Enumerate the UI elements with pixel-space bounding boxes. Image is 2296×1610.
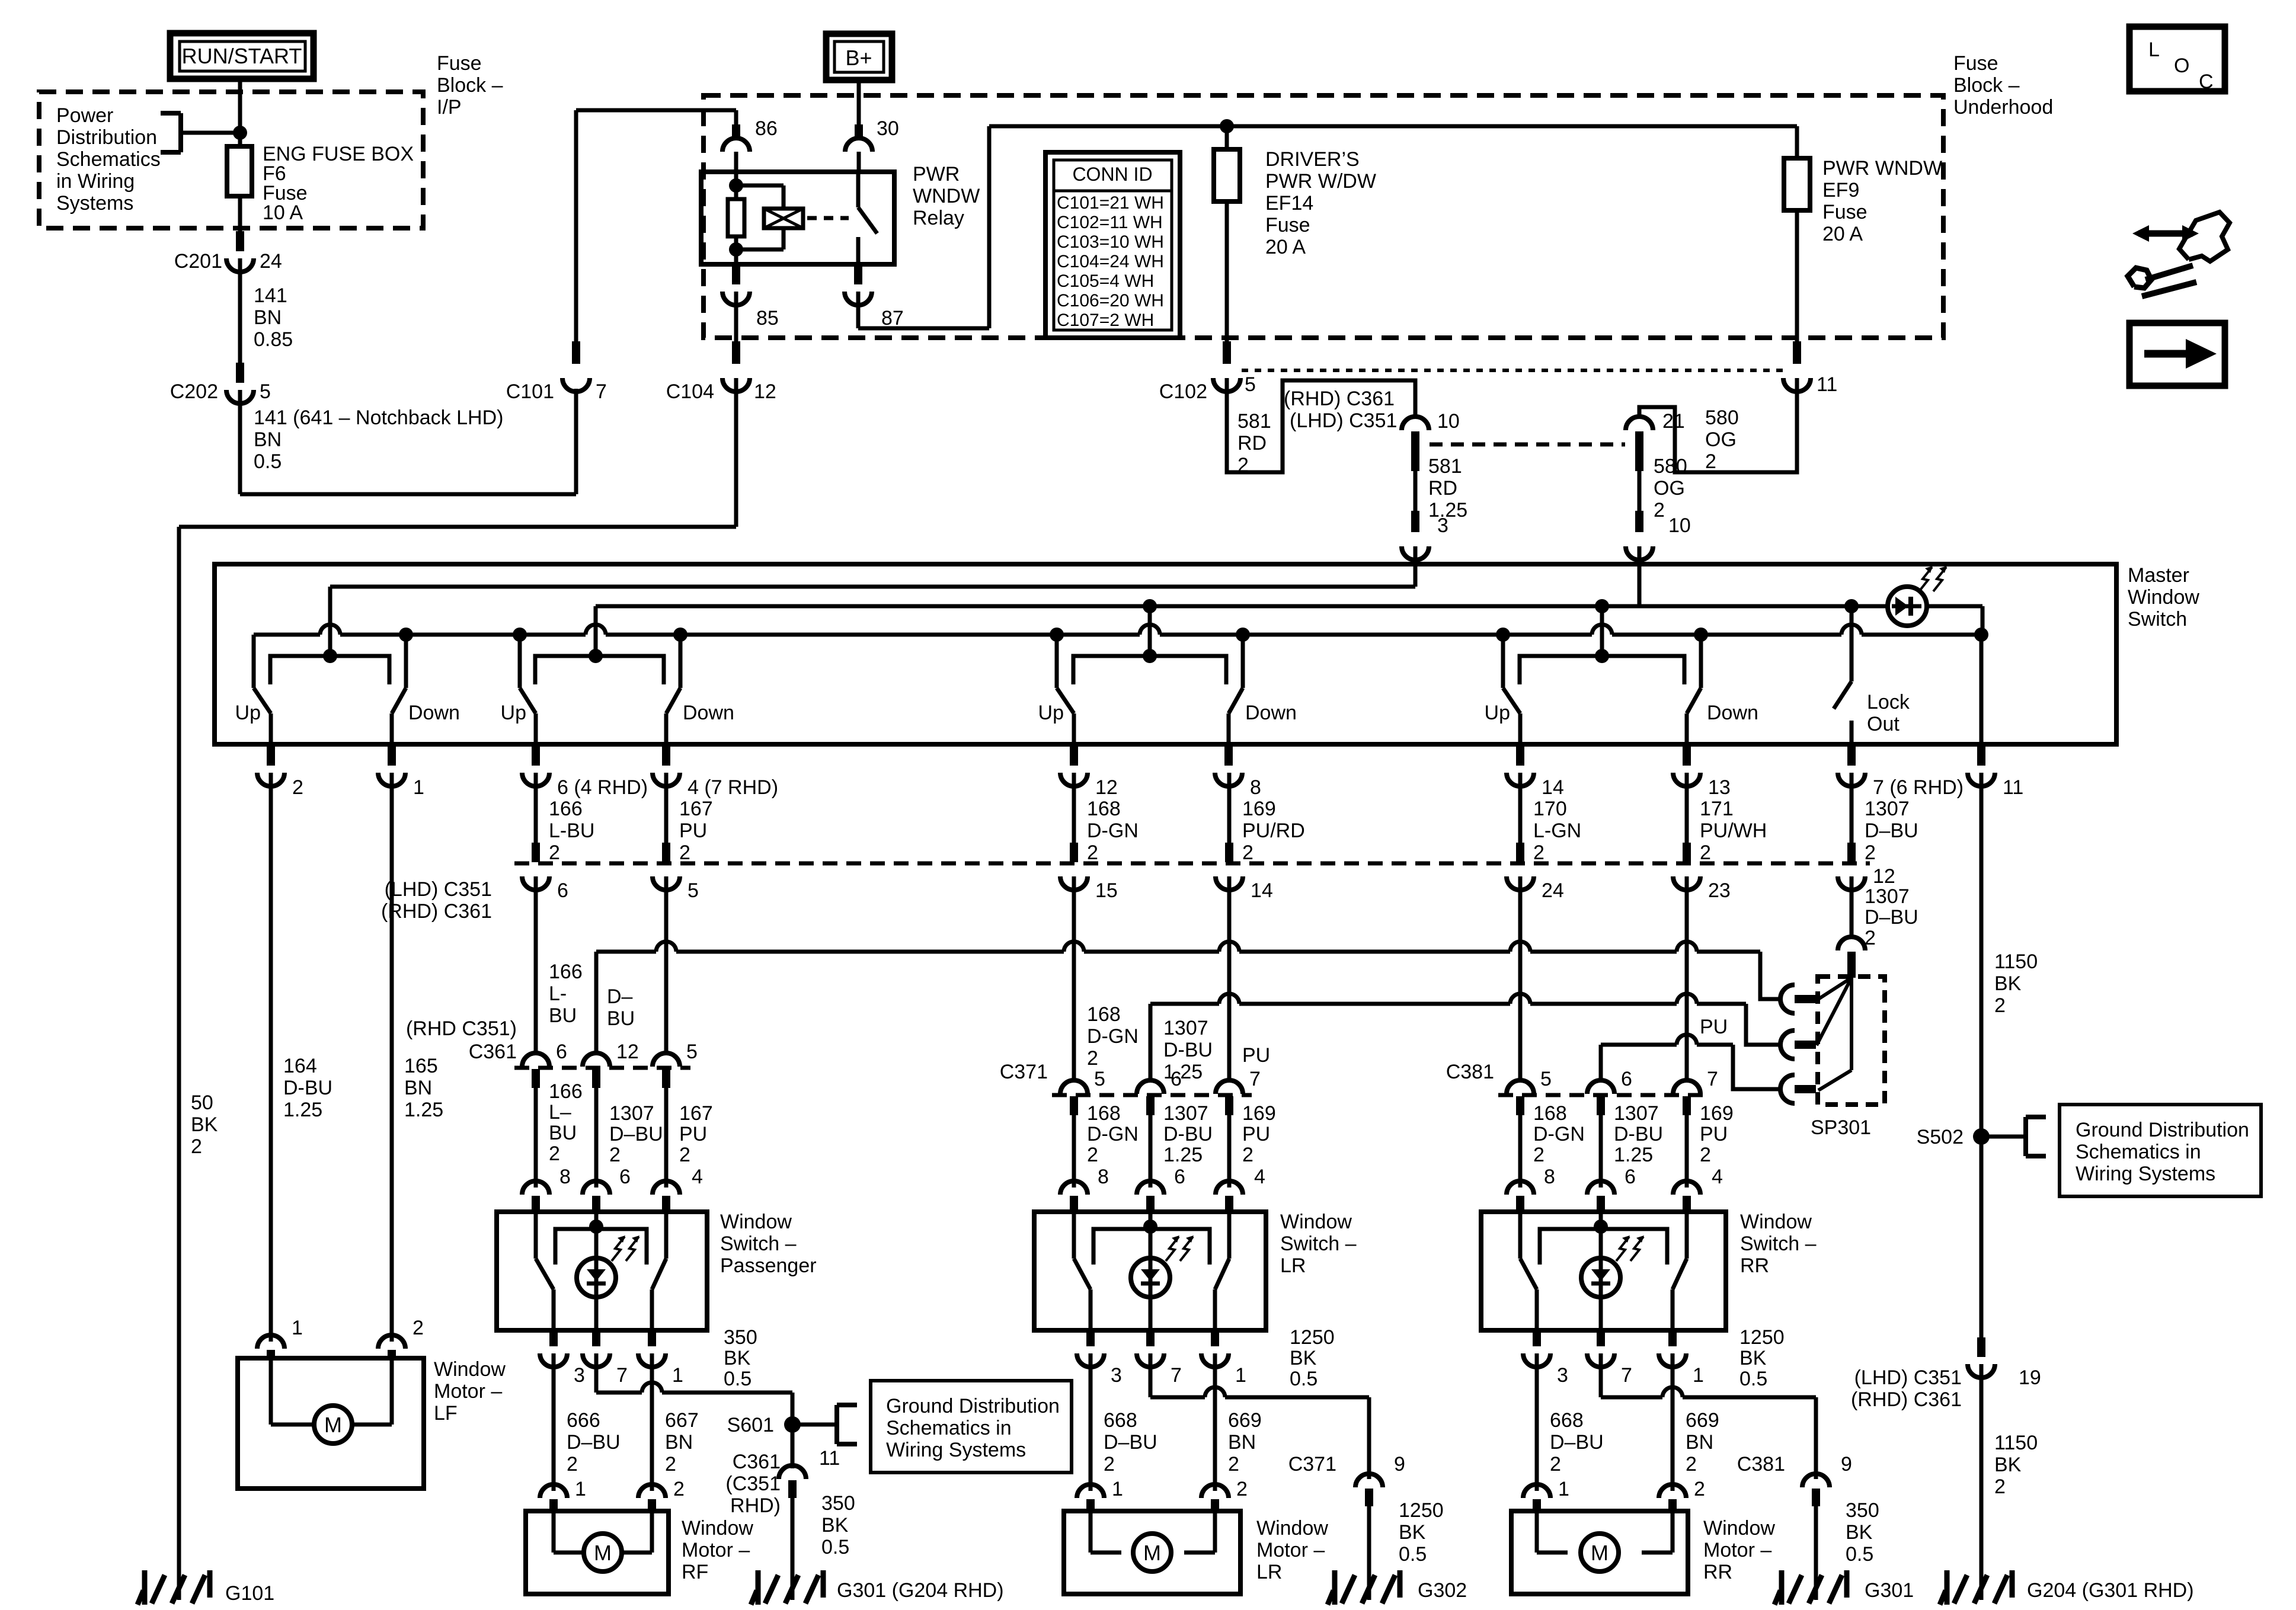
svg-text:(LHD) C351: (LHD) C351 <box>1290 409 1397 432</box>
svg-text:3: 3 <box>1557 1364 1568 1387</box>
svg-text:2: 2 <box>549 841 560 864</box>
svg-text:2: 2 <box>292 776 303 799</box>
svg-text:D-GN: D-GN <box>1087 1025 1139 1048</box>
switch LED <box>577 1258 616 1297</box>
ground distribution note box <box>871 1381 1072 1473</box>
svg-text:Block –: Block – <box>1953 74 2020 97</box>
svg-text:C371: C371 <box>1000 1061 1048 1083</box>
svg-text:20 A: 20 A <box>1822 223 1863 245</box>
wire 168 D-GN 2 to LR switch <box>1072 1119 1076 1188</box>
wire throw bar to 581 bus <box>328 587 332 656</box>
note bracket to wire <box>178 113 183 152</box>
wire 1307 D-BU 2 to switch <box>594 1092 599 1188</box>
svg-text:C104: C104 <box>666 380 714 403</box>
wire 1307 link corner to C381-6 <box>1599 1045 1603 1067</box>
splice S502 <box>1973 1128 1990 1145</box>
wire 168 D-GN 2 to RR switch <box>1518 1119 1523 1188</box>
switch bank up blade <box>1057 688 1074 713</box>
svg-text:1307: 1307 <box>1614 1102 1659 1125</box>
svg-text:C381: C381 <box>1446 1061 1494 1083</box>
svg-text:BU: BU <box>549 1122 577 1144</box>
window switch RR box <box>1481 1212 1726 1330</box>
svg-text:BN: BN <box>404 1077 432 1099</box>
svg-text:581: 581 <box>1428 455 1462 478</box>
icon vehicle-service glyph <box>2179 212 2230 261</box>
connector C351 pin 10 <box>1402 417 1429 430</box>
ground G101 <box>177 1568 181 1600</box>
svg-text:CONN ID: CONN ID <box>1072 164 1152 185</box>
splice S601 <box>784 1416 801 1433</box>
svg-text:170: 170 <box>1533 798 1567 820</box>
svg-text:Block –: Block – <box>437 74 503 97</box>
switch bank throw bar <box>535 656 664 684</box>
svg-text:BK: BK <box>1994 972 2022 995</box>
switch bank throw bar <box>1520 656 1684 684</box>
svg-text:2: 2 <box>1228 1453 1239 1475</box>
row1 connector pin 23 <box>1683 843 1691 862</box>
wire 1307 D-BU jumper <box>594 952 599 1039</box>
wire 141 BN 0.85 <box>238 258 242 363</box>
svg-text:1307: 1307 <box>1865 798 1910 820</box>
svg-text:M: M <box>1591 1541 1609 1565</box>
svg-text:4: 4 <box>1254 1166 1265 1188</box>
connector EF9 output pin 11 <box>1793 341 1801 364</box>
switch bank down blade <box>666 688 680 713</box>
window switch top pin <box>1673 1181 1700 1195</box>
svg-text:D–BU: D–BU <box>1865 820 1918 842</box>
row2 connector pin 7 <box>1227 1065 1232 1080</box>
master switch pin 1 <box>388 744 396 766</box>
svg-text:BK: BK <box>821 1514 849 1537</box>
switch bank up contact <box>513 628 527 642</box>
svg-text:Switch: Switch <box>2128 608 2187 630</box>
row1 connector pin 24 <box>1516 843 1524 862</box>
svg-text:12: 12 <box>754 380 776 403</box>
node junction on RUN/START feed <box>233 126 247 140</box>
wire 1307 D-BU 2 from master pin 7 <box>1850 773 1854 844</box>
connector into SP301 <box>1838 937 1865 950</box>
svg-text:in Wiring: in Wiring <box>56 170 135 193</box>
svg-text:PU/WH: PU/WH <box>1700 820 1767 842</box>
wire 669 BN 2 <box>1213 1353 1217 1491</box>
svg-text:2: 2 <box>1994 994 2006 1017</box>
svg-text:1: 1 <box>1693 1364 1704 1387</box>
svg-text:C202: C202 <box>170 380 218 403</box>
relay pin 86 <box>732 124 740 137</box>
svg-text:C101=21 WH: C101=21 WH <box>1057 193 1164 213</box>
motor LR <box>1089 1511 1093 1553</box>
LED flash arrows <box>1616 1237 1629 1261</box>
svg-text:BK: BK <box>724 1347 751 1369</box>
svg-text:C201: C201 <box>174 250 222 273</box>
svg-text:Switch –: Switch – <box>720 1233 797 1255</box>
svg-text:8: 8 <box>1098 1166 1109 1188</box>
wire 580 OG 2 to connector 10 <box>1638 471 1642 521</box>
svg-text:1: 1 <box>1112 1478 1123 1500</box>
svg-text:169: 169 <box>1242 1102 1276 1125</box>
svg-text:D–BU: D–BU <box>1550 1431 1604 1454</box>
svg-text:WNDW: WNDW <box>913 185 980 207</box>
switch bottom pins 3 7 1 <box>1086 1330 1095 1346</box>
motor LF <box>269 1358 273 1425</box>
svg-text:B+: B+ <box>845 46 872 70</box>
node feed bus junction <box>1220 119 1234 133</box>
svg-text:Window: Window <box>720 1211 792 1233</box>
relay PWR WNDW box <box>701 172 894 264</box>
svg-text:SP301: SP301 <box>1811 1116 1871 1139</box>
svg-text:I/P: I/P <box>437 96 462 119</box>
svg-text:D-GN: D-GN <box>1533 1123 1585 1145</box>
svg-text:LR: LR <box>1280 1254 1306 1277</box>
svg-text:BN: BN <box>254 428 282 451</box>
switch LED <box>1131 1258 1170 1297</box>
svg-text:(RHD) C361: (RHD) C361 <box>381 900 492 923</box>
svg-text:(C351: (C351 <box>725 1473 781 1495</box>
svg-text:EF9: EF9 <box>1822 179 1859 201</box>
svg-text:C361: C361 <box>469 1041 517 1063</box>
svg-text:2: 2 <box>1104 1453 1115 1475</box>
svg-text:2: 2 <box>1533 1144 1544 1166</box>
relay actuation dashed link <box>807 216 849 220</box>
relay coil resistor <box>734 172 738 199</box>
svg-text:1150: 1150 <box>1994 1432 2038 1454</box>
relay armature switch <box>856 172 861 207</box>
svg-text:D-GN: D-GN <box>1087 1123 1139 1145</box>
connector 3 into master switch <box>1411 511 1419 532</box>
connector C101 pin 7 <box>572 341 580 364</box>
row1 connector pin 15 <box>1070 843 1078 862</box>
svg-text:D–: D– <box>607 985 633 1008</box>
svg-text:580: 580 <box>1654 455 1687 478</box>
wire throw bar to 580 bus <box>594 606 598 656</box>
svg-text:Power: Power <box>56 104 113 127</box>
svg-text:0.5: 0.5 <box>1739 1368 1767 1390</box>
lockout switch <box>1844 599 1859 613</box>
power label RUN/START box <box>170 33 314 79</box>
up blade <box>534 1212 538 1259</box>
switch bank down blade <box>1229 688 1243 713</box>
svg-text:M: M <box>1143 1541 1161 1565</box>
svg-text:2: 2 <box>1700 841 1711 864</box>
svg-text:168: 168 <box>1087 798 1121 820</box>
svg-text:24: 24 <box>260 250 282 273</box>
wire 667 BN 2 <box>650 1353 654 1491</box>
svg-text:87: 87 <box>881 307 904 329</box>
connector C351 pin 19 <box>1977 1337 1985 1357</box>
wire 1250 BK 0.5 RR LED ground <box>1599 1353 1603 1397</box>
switch bottom pins 3 7 1 <box>1533 1330 1541 1346</box>
svg-text:2: 2 <box>1242 1144 1253 1166</box>
svg-text:PU: PU <box>679 1123 707 1145</box>
svg-text:Up: Up <box>1485 702 1510 724</box>
master switch pin 8 <box>1224 744 1233 766</box>
wire 164 D-BU 1.25 <box>269 773 273 1342</box>
svg-text:4 (7 RHD): 4 (7 RHD) <box>687 776 778 799</box>
row2 connector pin 5 <box>1072 1065 1076 1080</box>
svg-text:166: 166 <box>549 798 583 820</box>
svg-text:2: 2 <box>1236 1478 1248 1500</box>
svg-text:3: 3 <box>1437 514 1448 537</box>
svg-text:164: 164 <box>283 1055 317 1077</box>
svg-text:Window: Window <box>1703 1517 1775 1539</box>
row2 connector pin 6 <box>1599 1065 1603 1080</box>
svg-text:(LHD) C351: (LHD) C351 <box>1854 1366 1962 1389</box>
switch bank up blade <box>254 688 271 713</box>
svg-text:Fuse: Fuse <box>437 52 482 75</box>
svg-text:Switch –: Switch – <box>1740 1233 1817 1255</box>
connector row C371 dashed <box>1052 1093 1252 1097</box>
relay pin 30 <box>855 124 863 137</box>
svg-text:2: 2 <box>1533 841 1544 864</box>
svg-text:2: 2 <box>1087 841 1098 864</box>
window motor LF box <box>238 1358 424 1489</box>
wire 669 BN 2 RR <box>1671 1353 1675 1491</box>
svg-text:4: 4 <box>692 1166 703 1188</box>
svg-text:14: 14 <box>1251 879 1273 902</box>
svg-text:4: 4 <box>1712 1166 1723 1188</box>
window switch Passenger box <box>497 1212 707 1330</box>
switch internals <box>1143 1219 1157 1234</box>
svg-text:8: 8 <box>1250 776 1261 799</box>
svg-text:12: 12 <box>616 1041 639 1063</box>
svg-text:C103=10 WH: C103=10 WH <box>1057 232 1164 252</box>
svg-text:30: 30 <box>877 117 899 140</box>
svg-text:2: 2 <box>1700 1144 1711 1166</box>
row2 connector pin 6 <box>1149 1065 1153 1080</box>
window switch top pin <box>1137 1181 1164 1195</box>
bus common rail inside master switch <box>254 633 320 637</box>
connector C361 pin 21 <box>1626 417 1653 430</box>
down blade <box>664 1212 669 1259</box>
connector row C361 passenger dashed <box>514 1066 690 1070</box>
svg-text:(LHD) C351: (LHD) C351 <box>385 878 492 901</box>
svg-text:S601: S601 <box>727 1414 774 1436</box>
wire 1250 BK 0.5 LED ground <box>1149 1353 1153 1397</box>
svg-text:PWR: PWR <box>913 163 960 185</box>
svg-text:12: 12 <box>1095 776 1118 799</box>
svg-text:0.5: 0.5 <box>1399 1543 1427 1566</box>
svg-text:Wiring Systems: Wiring Systems <box>2076 1163 2215 1185</box>
motor LF pin 1 <box>257 1335 284 1349</box>
svg-text:L: L <box>2148 39 2160 61</box>
wire RUN/START to fuse F6 <box>238 79 242 146</box>
svg-text:13: 13 <box>1708 776 1731 799</box>
svg-text:D-BU: D-BU <box>283 1077 332 1099</box>
svg-text:350: 350 <box>821 1492 855 1515</box>
svg-text:6: 6 <box>1171 1068 1182 1090</box>
window switch top pin <box>1060 1181 1088 1195</box>
svg-text:12: 12 <box>1873 865 1895 888</box>
master switch pin 12 <box>1070 744 1078 766</box>
svg-text:Up: Up <box>1038 702 1064 724</box>
svg-text:2: 2 <box>679 1144 690 1166</box>
wire 581 RD 2 meander C102 to C351-10 <box>1227 378 1415 472</box>
wire throw bar to 580 bus <box>1148 606 1152 656</box>
switch bank down contact <box>399 628 413 642</box>
master switch pin 13 <box>1683 744 1691 766</box>
icon LOC box <box>2129 27 2225 91</box>
wire 350 BK 0.5 to G301 <box>1814 1506 1818 1571</box>
svg-text:7: 7 <box>1621 1364 1632 1387</box>
window switch top pin <box>1507 1181 1534 1195</box>
svg-text:7 (6 RHD): 7 (6 RHD) <box>1873 776 1964 799</box>
LED flash arrows <box>1166 1237 1179 1261</box>
ground G204 (G301 RHD) <box>1980 1568 1984 1600</box>
svg-text:RHD): RHD) <box>730 1494 781 1517</box>
svg-text:165: 165 <box>404 1055 438 1077</box>
window motor RF box <box>526 1511 669 1594</box>
wire 1307 link L1 to SP301 top <box>596 950 656 954</box>
svg-text:10: 10 <box>1668 514 1691 537</box>
svg-text:C106=20 WH: C106=20 WH <box>1057 291 1164 311</box>
wire relay 85 to C104-12 <box>734 292 738 341</box>
svg-text:L–: L– <box>549 1101 571 1124</box>
svg-text:14: 14 <box>1542 776 1564 799</box>
svg-text:Window: Window <box>2128 586 2199 609</box>
svg-text:669: 669 <box>1686 1409 1719 1432</box>
svg-text:C361: C361 <box>733 1451 781 1473</box>
svg-text:Down: Down <box>1707 702 1758 724</box>
svg-text:0.5: 0.5 <box>254 450 282 473</box>
svg-text:0.5: 0.5 <box>1846 1543 1873 1566</box>
svg-text:166: 166 <box>549 1080 583 1103</box>
svg-text:C371: C371 <box>1288 1453 1336 1475</box>
svg-text:D–BU: D–BU <box>567 1431 621 1454</box>
svg-text:M: M <box>324 1413 342 1437</box>
fuse EF9 PWR WNDW 20A <box>1795 126 1799 158</box>
svg-text:1307: 1307 <box>1163 1017 1208 1039</box>
row2 connector pin 12 <box>594 1038 599 1053</box>
svg-text:Down: Down <box>408 702 460 724</box>
svg-text:0.5: 0.5 <box>1290 1368 1318 1390</box>
master switch pin 14 <box>1516 744 1524 766</box>
wire 1307 D-BU 2 to SP301 <box>1850 876 1854 936</box>
svg-text:1.25: 1.25 <box>1163 1061 1203 1083</box>
svg-text:LF: LF <box>434 1402 458 1425</box>
wire 1307 link L2 to SP301 middle <box>1150 1002 1219 1006</box>
svg-text:169: 169 <box>1700 1102 1734 1125</box>
CONN ID table <box>1045 152 1180 338</box>
svg-text:667: 667 <box>665 1409 699 1432</box>
wire 350 BK 0.5 LED ground <box>594 1353 599 1393</box>
wire 169 PU 2 to RR switch <box>1685 1119 1689 1188</box>
svg-text:171: 171 <box>1700 798 1734 820</box>
svg-text:Switch –: Switch – <box>1280 1233 1357 1255</box>
svg-text:166: 166 <box>549 961 583 983</box>
wire 1250 BK 0.5 to G302 <box>1367 1506 1371 1571</box>
svg-text:6: 6 <box>619 1166 631 1188</box>
svg-text:9: 9 <box>1394 1453 1405 1475</box>
switch internals <box>589 1219 603 1234</box>
window switch top pin <box>583 1181 610 1195</box>
svg-text:3: 3 <box>574 1364 585 1387</box>
svg-text:C105=4 WH: C105=4 WH <box>1057 271 1154 291</box>
svg-text:168: 168 <box>1087 1003 1121 1026</box>
window switch top pin <box>1216 1181 1243 1195</box>
switch bank down contact <box>1236 628 1250 642</box>
dashed link C351-10 to C361-21 <box>1430 443 1625 447</box>
wire 170 L-GN 2 from master pin 14 <box>1518 773 1523 844</box>
svg-text:Ground Distribution: Ground Distribution <box>2076 1119 2249 1141</box>
wire fuse F6 to C201 <box>238 196 242 231</box>
svg-text:2: 2 <box>1237 454 1249 476</box>
switch bank down contact <box>673 628 687 642</box>
svg-text:2: 2 <box>1686 1453 1697 1475</box>
svg-text:2: 2 <box>1087 1047 1098 1070</box>
SP301 splice fan <box>1817 978 1851 1000</box>
bus 581 feed inside master switch <box>330 585 1415 589</box>
relay pin 86 wire from C101-7 <box>574 110 578 348</box>
svg-text:7: 7 <box>1707 1068 1718 1090</box>
switch bank down contact <box>1694 628 1708 642</box>
svg-text:3: 3 <box>1111 1364 1122 1387</box>
svg-text:2: 2 <box>665 1453 676 1475</box>
svg-text:PU: PU <box>1242 1044 1270 1067</box>
master switch pin 4 (7 RHD) <box>662 744 670 766</box>
svg-text:6: 6 <box>557 879 568 902</box>
row1 connector pin 12 <box>1847 843 1856 862</box>
wire 1150 BK 2 from master pin 11 <box>1980 773 1984 1337</box>
svg-text:RF: RF <box>682 1561 708 1583</box>
svg-text:Distribution: Distribution <box>56 126 157 149</box>
svg-text:1: 1 <box>1558 1478 1569 1500</box>
svg-text:2: 2 <box>1087 1144 1098 1166</box>
svg-text:2: 2 <box>412 1317 424 1339</box>
switch bank down blade <box>392 688 406 713</box>
svg-text:L-: L- <box>549 982 567 1005</box>
svg-text:1: 1 <box>413 776 424 799</box>
svg-text:5: 5 <box>687 879 699 902</box>
svg-text:6: 6 <box>556 1041 567 1063</box>
wire 1307 D-BU 1.25 <box>1149 1004 1153 1067</box>
svg-text:RR: RR <box>1740 1254 1769 1277</box>
svg-text:2: 2 <box>549 1142 560 1165</box>
svg-text:BN: BN <box>254 306 282 329</box>
svg-text:2: 2 <box>1694 1478 1705 1500</box>
svg-text:350: 350 <box>724 1326 757 1349</box>
svg-text:15: 15 <box>1095 879 1118 902</box>
switch bank throw bar <box>1073 656 1226 684</box>
svg-text:2: 2 <box>679 841 690 864</box>
svg-text:50: 50 <box>191 1092 213 1114</box>
ground G301 <box>1814 1568 1818 1600</box>
svg-text:RD: RD <box>1237 432 1267 454</box>
svg-text:G302: G302 <box>1418 1579 1467 1602</box>
svg-text:BN: BN <box>1228 1431 1256 1454</box>
splice SP301 dashed box <box>1818 977 1885 1105</box>
svg-text:6: 6 <box>1625 1166 1636 1188</box>
svg-text:G101: G101 <box>225 1582 274 1605</box>
svg-text:5: 5 <box>1094 1068 1105 1090</box>
wire 580 bus to pin 11 <box>1981 606 1985 635</box>
svg-text:1.25: 1.25 <box>404 1099 443 1121</box>
bus 580 feed inside master switch <box>596 604 1982 609</box>
svg-text:2: 2 <box>1705 450 1716 473</box>
power label B+ box <box>826 34 892 80</box>
ground distribution note box right <box>2060 1105 2261 1196</box>
svg-text:85: 85 <box>756 307 779 329</box>
row2 connector pin 5 <box>1518 1065 1523 1080</box>
svg-text:5: 5 <box>260 380 271 403</box>
svg-text:167: 167 <box>679 798 713 820</box>
row1 connector pin 14 <box>1225 843 1233 862</box>
svg-text:10: 10 <box>1437 410 1460 433</box>
svg-text:O: O <box>2174 55 2189 77</box>
svg-text:Schematics in: Schematics in <box>886 1417 1012 1439</box>
connector C102 pin 5 <box>1223 341 1231 364</box>
svg-text:G301 (G204 RHD): G301 (G204 RHD) <box>837 1579 1004 1602</box>
svg-text:1.25: 1.25 <box>1163 1144 1203 1166</box>
